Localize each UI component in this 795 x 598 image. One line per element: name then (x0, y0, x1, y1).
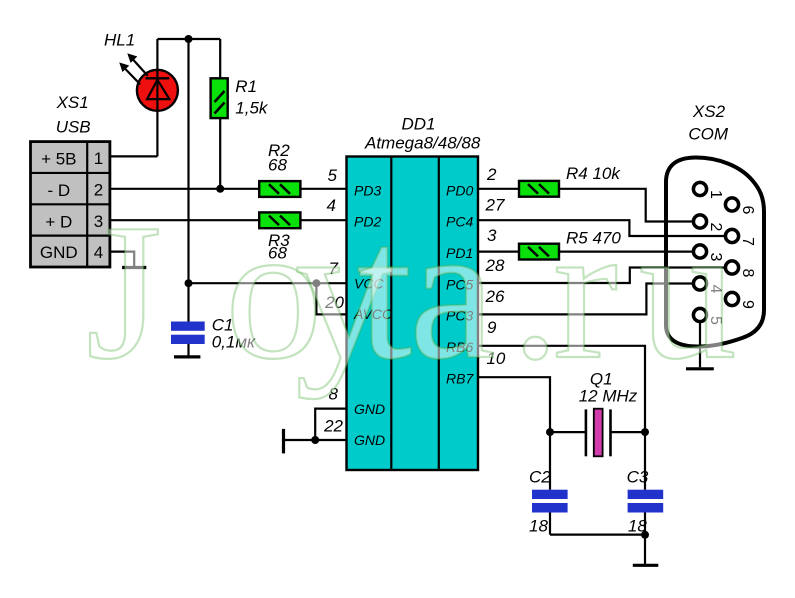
svg-text:R4 10k: R4 10k (566, 164, 621, 183)
svg-text:GND: GND (40, 243, 78, 262)
svg-text:68: 68 (268, 156, 287, 175)
svg-text:GND: GND (354, 432, 385, 448)
svg-text:5: 5 (328, 166, 338, 185)
svg-text:1: 1 (94, 149, 103, 168)
svg-text:USB: USB (56, 117, 91, 136)
svg-text:7: 7 (739, 237, 756, 246)
svg-text:1,5k: 1,5k (235, 99, 269, 118)
svg-text:18: 18 (529, 517, 548, 536)
svg-text:18: 18 (628, 517, 647, 536)
svg-text:XS1: XS1 (56, 93, 89, 112)
svg-text:C3: C3 (627, 467, 649, 486)
svg-text:22: 22 (323, 417, 343, 436)
svg-text:9: 9 (739, 300, 756, 309)
svg-text:6: 6 (739, 206, 756, 215)
svg-text:R1: R1 (235, 77, 257, 96)
svg-text:2: 2 (486, 165, 497, 184)
svg-text:+ D: + D (45, 212, 72, 231)
svg-text:XS2: XS2 (692, 102, 726, 121)
svg-text:8: 8 (739, 269, 756, 278)
svg-text:DD1: DD1 (402, 115, 436, 134)
svg-text:- D: - D (47, 181, 70, 200)
svg-text:GND: GND (354, 401, 385, 417)
svg-text:HL1: HL1 (104, 31, 135, 50)
svg-text:+ 5В: + 5В (41, 150, 76, 169)
svg-text:COM: COM (688, 125, 729, 144)
svg-text:Atmega8/48/88: Atmega8/48/88 (364, 134, 481, 153)
svg-text:C2: C2 (529, 467, 551, 486)
